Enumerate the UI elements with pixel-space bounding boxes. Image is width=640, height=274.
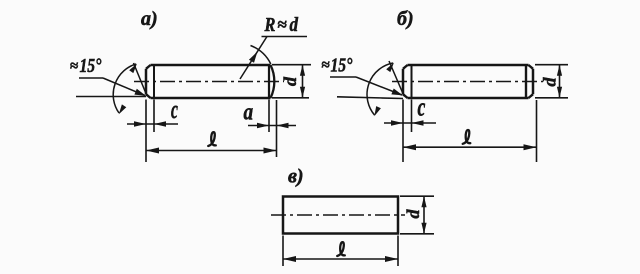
pin A centerline	[134, 81, 284, 83]
svg-text:15°: 15°	[331, 54, 354, 76]
pin A l dimension line	[146, 150, 277, 152]
pin V d dimension line	[423, 196, 425, 234]
pin A l label	[208, 132, 216, 146]
pin A a arrow left	[257, 123, 269, 129]
pin A angle arc	[113, 64, 136, 113]
pin A a dimension line	[248, 125, 296, 127]
pin B d extension lines	[535, 64, 568, 66]
pin B c extension lines	[402, 100, 404, 163]
pin A angle label underline	[79, 77, 103, 79]
pin B c arrow left	[391, 120, 403, 126]
pin V d arrow up	[421, 196, 426, 207]
pin V l arrow left	[283, 256, 296, 262]
pin A spherical end line	[268, 65, 270, 97]
dome arc extension	[251, 46, 271, 65]
pin B d dimension line	[559, 65, 561, 98]
svg-text:15°: 15°	[80, 54, 103, 76]
pin B angle leader	[356, 77, 402, 95]
pin A angle leader arrow	[134, 89, 145, 96]
pin B d arrow down	[557, 87, 562, 98]
pin B body outline	[408, 64, 529, 67]
svg-text:в): в)	[288, 166, 304, 188]
pin A c extension lines	[145, 100, 147, 163]
pin A d arrow up	[300, 65, 305, 76]
svg-text:б): б)	[397, 8, 414, 30]
pin B c dimension line	[384, 122, 436, 124]
pin A l arrow left	[146, 148, 159, 154]
pin B l arrow right	[524, 144, 537, 150]
svg-text:c: c	[418, 92, 426, 121]
pin V l dimension line	[283, 258, 398, 260]
svg-text:a: a	[244, 99, 254, 126]
pin B right chamfer line	[525, 65, 527, 97]
svg-text:≈: ≈	[278, 15, 287, 34]
svg-text:d: d	[290, 14, 299, 37]
pin B d arrow up	[557, 65, 562, 76]
pin B chamfer extension line	[389, 61, 404, 96]
pin A d dimension line	[302, 65, 304, 98]
svg-text:R: R	[264, 14, 276, 36]
pin V l extension lines	[282, 236, 284, 267]
radius leader arrow	[249, 52, 258, 63]
svg-text:d: d	[280, 76, 300, 86]
pin A c dimension line	[127, 123, 178, 125]
pin B l label	[463, 130, 471, 144]
pin B l right extension line	[536, 100, 538, 162]
svg-text:d: d	[403, 209, 423, 219]
pin A a arrow right	[277, 123, 289, 129]
pin A chamfer extension line	[134, 63, 148, 96]
pin B angle arc	[367, 63, 393, 115]
pin B left chamfer line	[411, 65, 413, 97]
pin A chamfer edge line	[153, 65, 155, 97]
pin A angle arc arrow top	[129, 64, 137, 74]
pin B centerline	[392, 81, 543, 83]
pin A angle ref line	[76, 96, 146, 98]
pin V body outline	[283, 197, 398, 234]
pin A c arrow left	[134, 121, 146, 127]
svg-text:≈: ≈	[322, 58, 330, 74]
pin B l arrow left	[403, 144, 416, 150]
label R=d underline	[262, 36, 308, 38]
pin A a extension lines	[268, 100, 270, 133]
pin B c arrow right	[412, 120, 424, 126]
pin B angle leader arrow	[391, 89, 402, 96]
pin B angle arc arrow bottom	[374, 106, 381, 116]
pin V centerline	[271, 214, 405, 216]
pin A body outline	[151, 64, 271, 67]
pin A angle arc arrow bottom	[119, 104, 127, 114]
pin V l label	[337, 242, 345, 256]
pin A c arrow right	[154, 121, 166, 127]
svg-text:d: d	[540, 77, 560, 87]
pin A d extension lines	[272, 64, 311, 66]
pin A l arrow right	[264, 148, 277, 154]
pin V l arrow right	[385, 256, 398, 262]
radius leader line	[240, 37, 267, 80]
pin A d arrow down	[300, 87, 305, 98]
pin B angle ref line	[337, 97, 403, 99]
pin B l dimension line	[403, 146, 537, 148]
pin A dome arc	[271, 65, 275, 98]
pin V d extension lines	[400, 195, 434, 197]
pin B angle label underline	[330, 76, 356, 78]
pin B angle arc arrow top	[386, 63, 394, 73]
pin A angle leader	[103, 78, 145, 96]
pin V d arrow down	[421, 223, 426, 234]
svg-text:≈: ≈	[70, 59, 78, 75]
svg-text:а): а)	[141, 8, 158, 30]
svg-text:c: c	[171, 95, 178, 124]
